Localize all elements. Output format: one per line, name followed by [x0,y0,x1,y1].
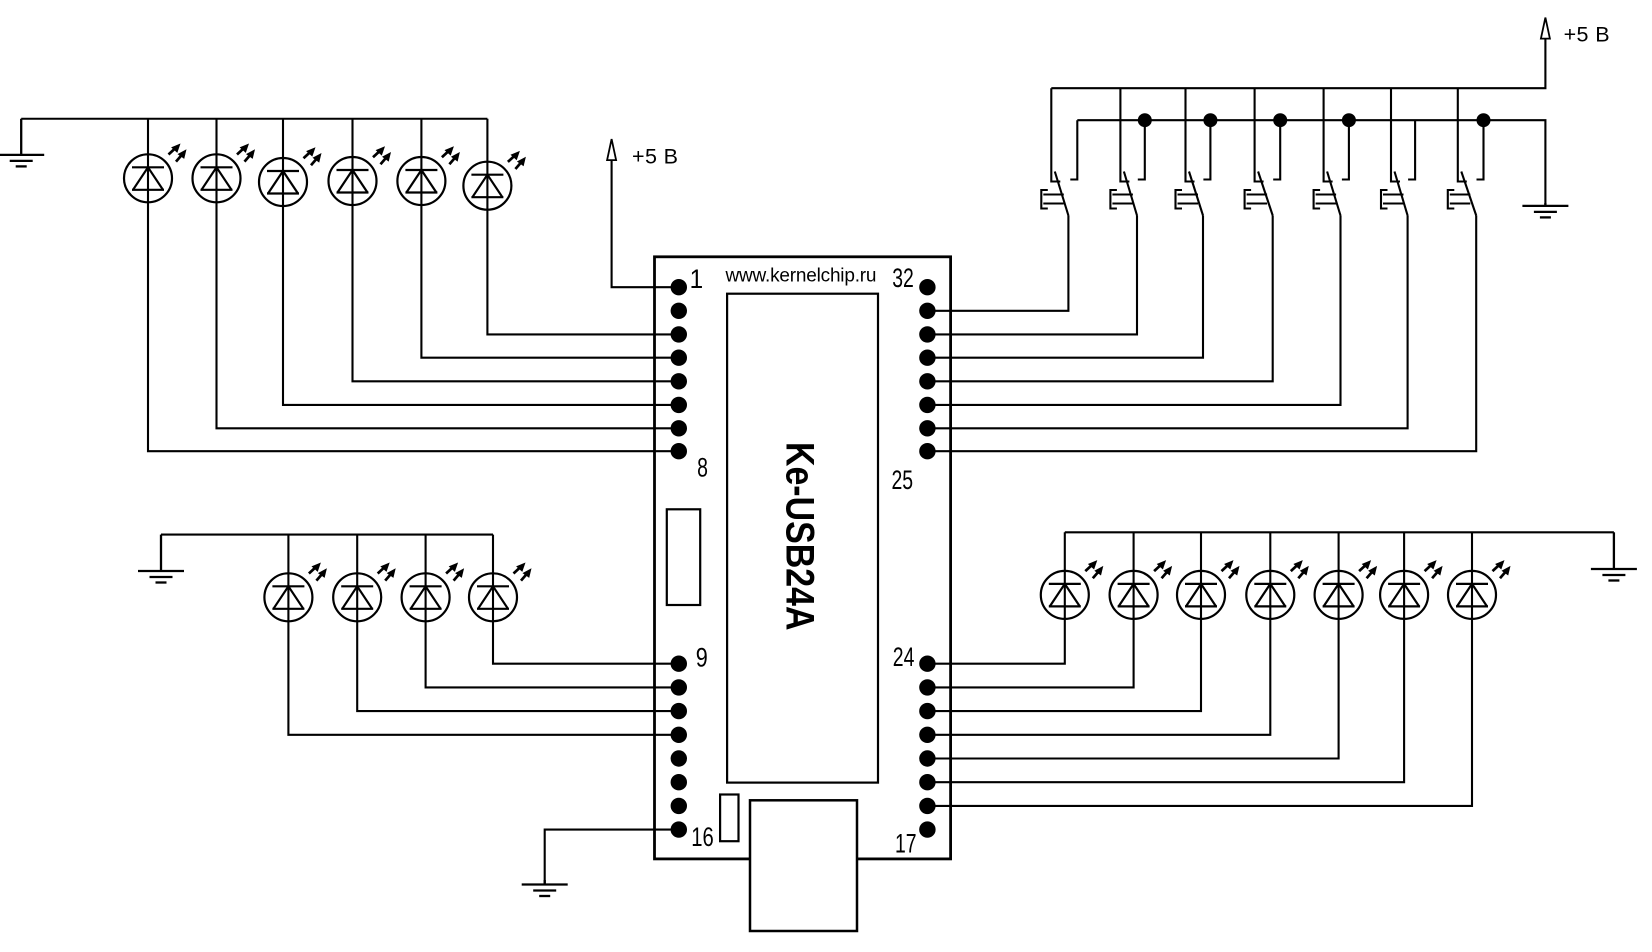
wire: switch SB6 to pin 26 [927,216,1407,429]
svg-text:Ke-USB24A: Ke-USB24A [777,442,821,631]
wire: pin 22 through LED D13 to GND bus [927,532,1201,711]
ground (bottom-left) [138,535,184,583]
pin 24 [919,656,935,672]
pin 16 [671,821,687,837]
pin 31 [919,303,935,319]
junction: GND bus / SB2 [1138,113,1152,127]
svg-text:+5 В: +5 В [632,145,678,169]
wire: GND bus through LED D3 to pin 6 [283,119,679,405]
svg-text:1: 1 [690,265,704,294]
LED D12 [1110,560,1173,619]
pin 10 [671,679,687,695]
LED D6 [463,151,526,210]
pin 29 [919,350,935,366]
pin 30 [919,326,935,342]
junction: GND bus / SB4 [1273,113,1287,127]
LED D2 [193,144,256,203]
pin 18 [919,798,935,814]
wire: GND bus through LED D5 to pin 4 [421,119,678,358]
wire: pin 24 through LED D11 to GND bus [927,532,1064,663]
wire: +5 V to pin 1 [612,160,679,287]
USB connector [750,800,857,931]
LED D5 [397,146,460,205]
pin 6 [671,397,687,413]
pin 15 [671,798,687,814]
wire: pin 20 through LED D15 to GND bus [927,532,1338,758]
IC U1 inner outline [727,294,878,783]
junction: GND bus / SB5 [1342,113,1356,127]
pin 3 [671,326,687,342]
switch SB3 [1176,88,1211,215]
junction: GND bus / SB7 [1477,113,1491,127]
LED D1 [124,144,187,203]
wire: switch SB2 to pin 30 [927,216,1137,335]
LED D15 [1315,560,1378,619]
ground (top-left) [0,119,44,167]
wire: +5 V bus (top-right) [1051,39,1545,89]
wire: pin 19 through LED D16 to GND bus [927,532,1404,782]
pin 22 [919,703,935,719]
wire: GND bus through LED D8 to pin 11 [357,535,679,712]
pin 27 [919,397,935,413]
wire: GND bus (top-right) [1077,120,1545,206]
switch SB6 [1381,88,1415,215]
switch SB4 [1245,88,1281,215]
wire: pin 16 to ground [545,830,679,885]
wire: GND bus through LED D9 to pin 10 [426,535,679,688]
wire: switch SB3 to pin 29 [927,216,1203,358]
wire: GND bus (bottom-left) [161,534,493,536]
svg-text:9: 9 [696,643,708,673]
IC U1 Ke-USB24A body [655,257,951,859]
LED D13 [1177,560,1240,619]
svg-text:www.kernelchip.ru: www.kernelchip.ru [725,266,877,287]
pin 8 [671,443,687,459]
wire: GND bus through LED D2 to pin 7 [217,119,679,429]
wire: GND bus through LED D6 to pin 3 [487,119,678,335]
pin 17 [919,821,935,837]
pin 19 [919,774,935,790]
pin 32 [919,279,935,295]
pin 21 [919,727,935,743]
svg-text:8: 8 [697,452,708,482]
pin 23 [919,679,935,695]
svg-text:17: 17 [895,829,917,859]
switch SB5 [1314,88,1349,215]
LED D8 [333,563,396,622]
wire: pin 23 through LED D12 to GND bus [927,532,1133,687]
svg-text:+5 В: +5 В [1564,23,1610,47]
wire: pin 18 through LED D17 to GND bus [927,532,1472,806]
wire: GND bus through LED D4 to pin 5 [353,119,679,382]
+5 V supply (right) [1541,18,1550,39]
pin 2 [671,303,687,319]
wire: switch SB7 to pin 25 [927,216,1476,452]
pin 25 [919,443,935,459]
pin 14 [671,774,687,790]
LED D11 [1041,560,1104,619]
wire: GND bus (top-left) [21,118,487,120]
LED D16 [1380,560,1443,619]
wire: GND bus through LED D1 to pin 8 [148,119,679,451]
LED D17 [1448,560,1511,619]
LED D3 [259,147,322,206]
pin 26 [919,420,935,436]
pin 1 [671,279,687,295]
ground (bottom-right) [1591,532,1637,580]
LED D9 [402,563,465,622]
pin 4 [671,350,687,366]
wire: switch SB4 to pin 28 [927,216,1272,382]
pin 11 [671,703,687,719]
ground (pin 16) [522,880,568,896]
LED D10 [469,563,532,622]
ground (top-right) [1522,203,1568,217]
wire: GND bus through LED D7 to pin 12 [288,535,678,735]
pin 28 [919,373,935,389]
svg-text:24: 24 [893,642,915,672]
pin 12 [671,727,687,743]
LED D14 [1246,560,1309,619]
component: jumper block (bottom) [720,795,738,842]
pin 7 [671,420,687,436]
wire: switch SB5 to pin 27 [927,216,1340,405]
switch SB7 [1448,88,1484,215]
svg-text:32: 32 [892,263,914,293]
pin 9 [671,656,687,672]
wire: GND bus through LED D10 to pin 9 [493,535,679,664]
LED D7 [264,563,327,622]
wire: GND bus (bottom-right) [1065,531,1614,533]
switch SB1 [1041,88,1077,215]
switch SB2 [1110,88,1144,215]
pin 20 [919,750,935,766]
pin 13 [671,750,687,766]
component: jumper block (left) [667,509,700,605]
+5 V supply (left) [607,139,616,160]
LED D4 [329,146,392,205]
pin 5 [671,373,687,389]
svg-text:25: 25 [891,465,913,495]
wire: switch SB1 to pin 31 [927,216,1068,311]
svg-text:16: 16 [691,822,714,853]
wire: pin 21 through LED D14 to GND bus [927,532,1270,735]
junction: GND bus / SB3 [1203,113,1217,127]
